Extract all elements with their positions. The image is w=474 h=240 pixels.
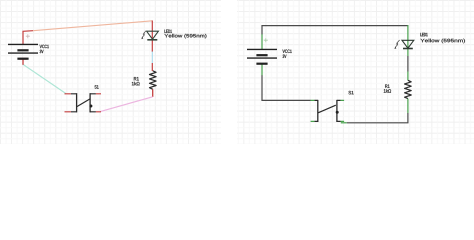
battery VCC1 bottom pin stub (red): [22, 59, 24, 65]
battery VCC1 plus mark: [26, 34, 30, 38]
label VCC1 (right): [283, 50, 292, 53]
label R1 (right): [385, 85, 389, 88]
switch S1 pin tips (red): [65, 94, 102, 112]
battery VCC1 bottom pin stub (green): [261, 64, 263, 76]
wire: battery- to switch (black routed): [262, 75, 311, 100]
R1 top pin stub (green): [407, 72, 409, 81]
wire: net R1 to switch (pink airwire): [100, 97, 152, 112]
label 1kOhm: [132, 82, 140, 86]
wire: net LED cathode to R1 (light blue airwire): [151, 52, 153, 64]
switch S1 contacts: [71, 93, 96, 112]
label 3V (right): [283, 55, 287, 58]
wire: R1 to switch (black routed): [347, 113, 408, 123]
wire: LED cathode to R1 (black): [407, 56, 409, 72]
LED1 (right) anode wire (green): [407, 25, 409, 56]
label LED1: [165, 30, 172, 33]
battery VCC1 top pin stub (green): [261, 34, 263, 49]
LED1 (right) emission arrows: [394, 40, 399, 49]
R1 top pin stub (red): [151, 63, 153, 71]
wire: net battery- to switch (teal airwire): [23, 64, 66, 93]
switch S1 (right) pin tips (green): [311, 100, 345, 121]
LED1 anode pin + through-wire (red): [151, 21, 153, 52]
R1 bottom pin stub (green): [407, 99, 409, 114]
battery VCC1: [8, 44, 38, 58]
battery VCC1 (right): [247, 49, 277, 63]
LED1 emission arrows: [141, 31, 146, 39]
resistor R1 (right): [405, 80, 412, 98]
switch S1 (right) lever: [318, 105, 336, 113]
label S1 (right): [349, 91, 354, 94]
switch S1 (right) throw contact dot: [336, 111, 339, 114]
LED1: [147, 31, 159, 40]
label S1: [95, 85, 99, 88]
resistor R1: [150, 71, 157, 90]
wire: net VCC+ battery top pin stub (red): [23, 31, 33, 45]
LED1 (right): [402, 40, 414, 48]
switch S1 (right) contacts: [314, 100, 340, 122]
label Yellow (595nm): [164, 34, 206, 39]
switch pin stub into wire (green): [341, 122, 347, 124]
battery plus mark (right): [264, 38, 268, 42]
label 3V: [40, 50, 44, 53]
wire: battery+ to LED anode (black routed): [262, 26, 408, 35]
wire: net battery+ to LED anode (salmon airwire): [33, 21, 152, 31]
label VCC1: [40, 45, 49, 48]
switch S1 lever: [77, 99, 90, 107]
R1 bottom pin stub (red): [152, 89, 154, 97]
switch S1 throw contact dot: [89, 105, 92, 108]
label R1: [134, 77, 139, 80]
label LED1 (right): [420, 33, 427, 36]
label Yellow (595nm) (right): [420, 39, 465, 44]
label 1kOhm (right): [384, 89, 391, 93]
